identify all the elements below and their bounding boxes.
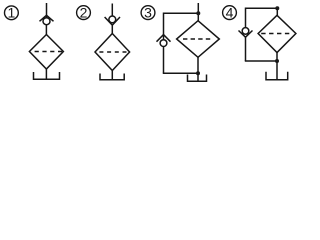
wire ball to filter 1	[45, 25, 47, 35]
tank T3	[188, 75, 207, 82]
filter F4 diamond	[258, 15, 296, 52]
wire top inlet of filter 2	[111, 4, 113, 17]
wire filter 1 to tank	[45, 69, 47, 79]
tank T1	[34, 72, 60, 79]
svg-text:4: 4	[226, 4, 234, 20]
label circle 1	[4, 6, 18, 20]
wire filter 4 to tank	[276, 53, 278, 80]
wire seat to filter 2	[111, 25, 113, 33]
check valve seat V2	[105, 17, 120, 25]
wire dot to filter 4	[276, 8, 278, 15]
wire bypass left vertical upper 4	[245, 8, 247, 28]
check valve ball V2	[109, 16, 116, 23]
check valve ball V4	[242, 28, 249, 35]
check valve seat V3	[157, 35, 171, 42]
wire bypass bottom horizontal 3	[163, 72, 198, 74]
svg-text:3: 3	[144, 4, 152, 20]
check valve seat V4	[239, 31, 253, 38]
wire bypass top horizontal 4	[246, 7, 278, 9]
filter F4 element dashed	[261, 33, 289, 35]
node junction dot bottom 4	[275, 59, 279, 63]
wire bypass left vertical lower 3	[163, 47, 165, 74]
label circle 4	[223, 6, 237, 20]
wire filter 2 to tank	[111, 71, 113, 80]
check valve ball V1	[43, 18, 50, 25]
wire bypass left vertical upper 3	[163, 13, 165, 40]
filter F3 diamond	[177, 21, 220, 58]
svg-text:1: 1	[8, 5, 16, 21]
tank T4	[266, 72, 288, 80]
filter F1 element dashed	[35, 51, 63, 53]
svg-text:2: 2	[80, 4, 88, 20]
wire filter 3 to tank	[197, 57, 199, 81]
label circle 3	[141, 6, 155, 20]
filter F3 element dashed	[183, 38, 211, 40]
filter F1 diamond	[29, 35, 63, 70]
wire top inlet of filter 3	[197, 3, 199, 21]
label circle 2	[77, 6, 91, 20]
wire bypass top horizontal 3	[164, 12, 199, 14]
wire bypass left vertical lower 4	[245, 37, 247, 61]
wire bypass bottom horizontal 4	[245, 60, 277, 62]
tank T2	[100, 74, 124, 80]
filter F2 element dashed	[99, 51, 126, 53]
filter F2 diamond	[95, 34, 130, 71]
node junction dot bottom 3	[196, 71, 200, 75]
check valve seat V1	[40, 15, 54, 21]
check valve ball V3	[160, 40, 167, 47]
node junction dot top 4	[275, 6, 279, 10]
wire top inlet of filter 1	[46, 3, 48, 18]
node junction dot top 3	[196, 11, 200, 15]
